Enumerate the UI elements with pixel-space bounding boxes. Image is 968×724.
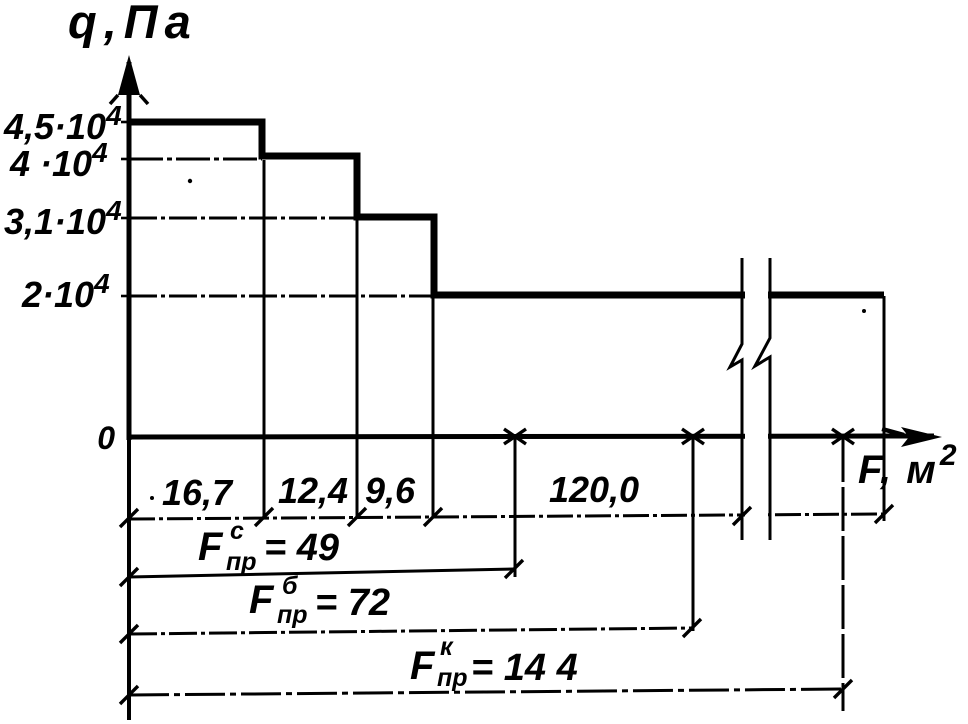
svg-text:F: F (410, 644, 436, 688)
svg-text:q,Па: q,Па (68, 0, 198, 48)
svg-text:= 72: = 72 (315, 582, 390, 624)
svg-text:120,0: 120,0 (549, 469, 639, 510)
svg-text:пр: пр (226, 548, 257, 576)
svg-text:б: б (282, 572, 299, 600)
svg-text:= 14 4: = 14 4 (471, 647, 578, 689)
svg-text:к: к (440, 633, 454, 661)
svg-text:F: F (198, 525, 224, 569)
svg-text:= 49: = 49 (264, 527, 339, 569)
svg-text:F: F (249, 578, 275, 622)
svg-text:0: 0 (97, 420, 115, 456)
svg-text:с: с (230, 517, 244, 545)
svg-text:пр: пр (277, 601, 308, 629)
svg-text:9,6: 9,6 (365, 470, 416, 511)
svg-text:12,4: 12,4 (278, 470, 348, 511)
svg-text:пр: пр (437, 664, 468, 692)
svg-text:16,7: 16,7 (162, 472, 234, 513)
svg-text:3,1·104: 3,1·104 (4, 195, 122, 242)
